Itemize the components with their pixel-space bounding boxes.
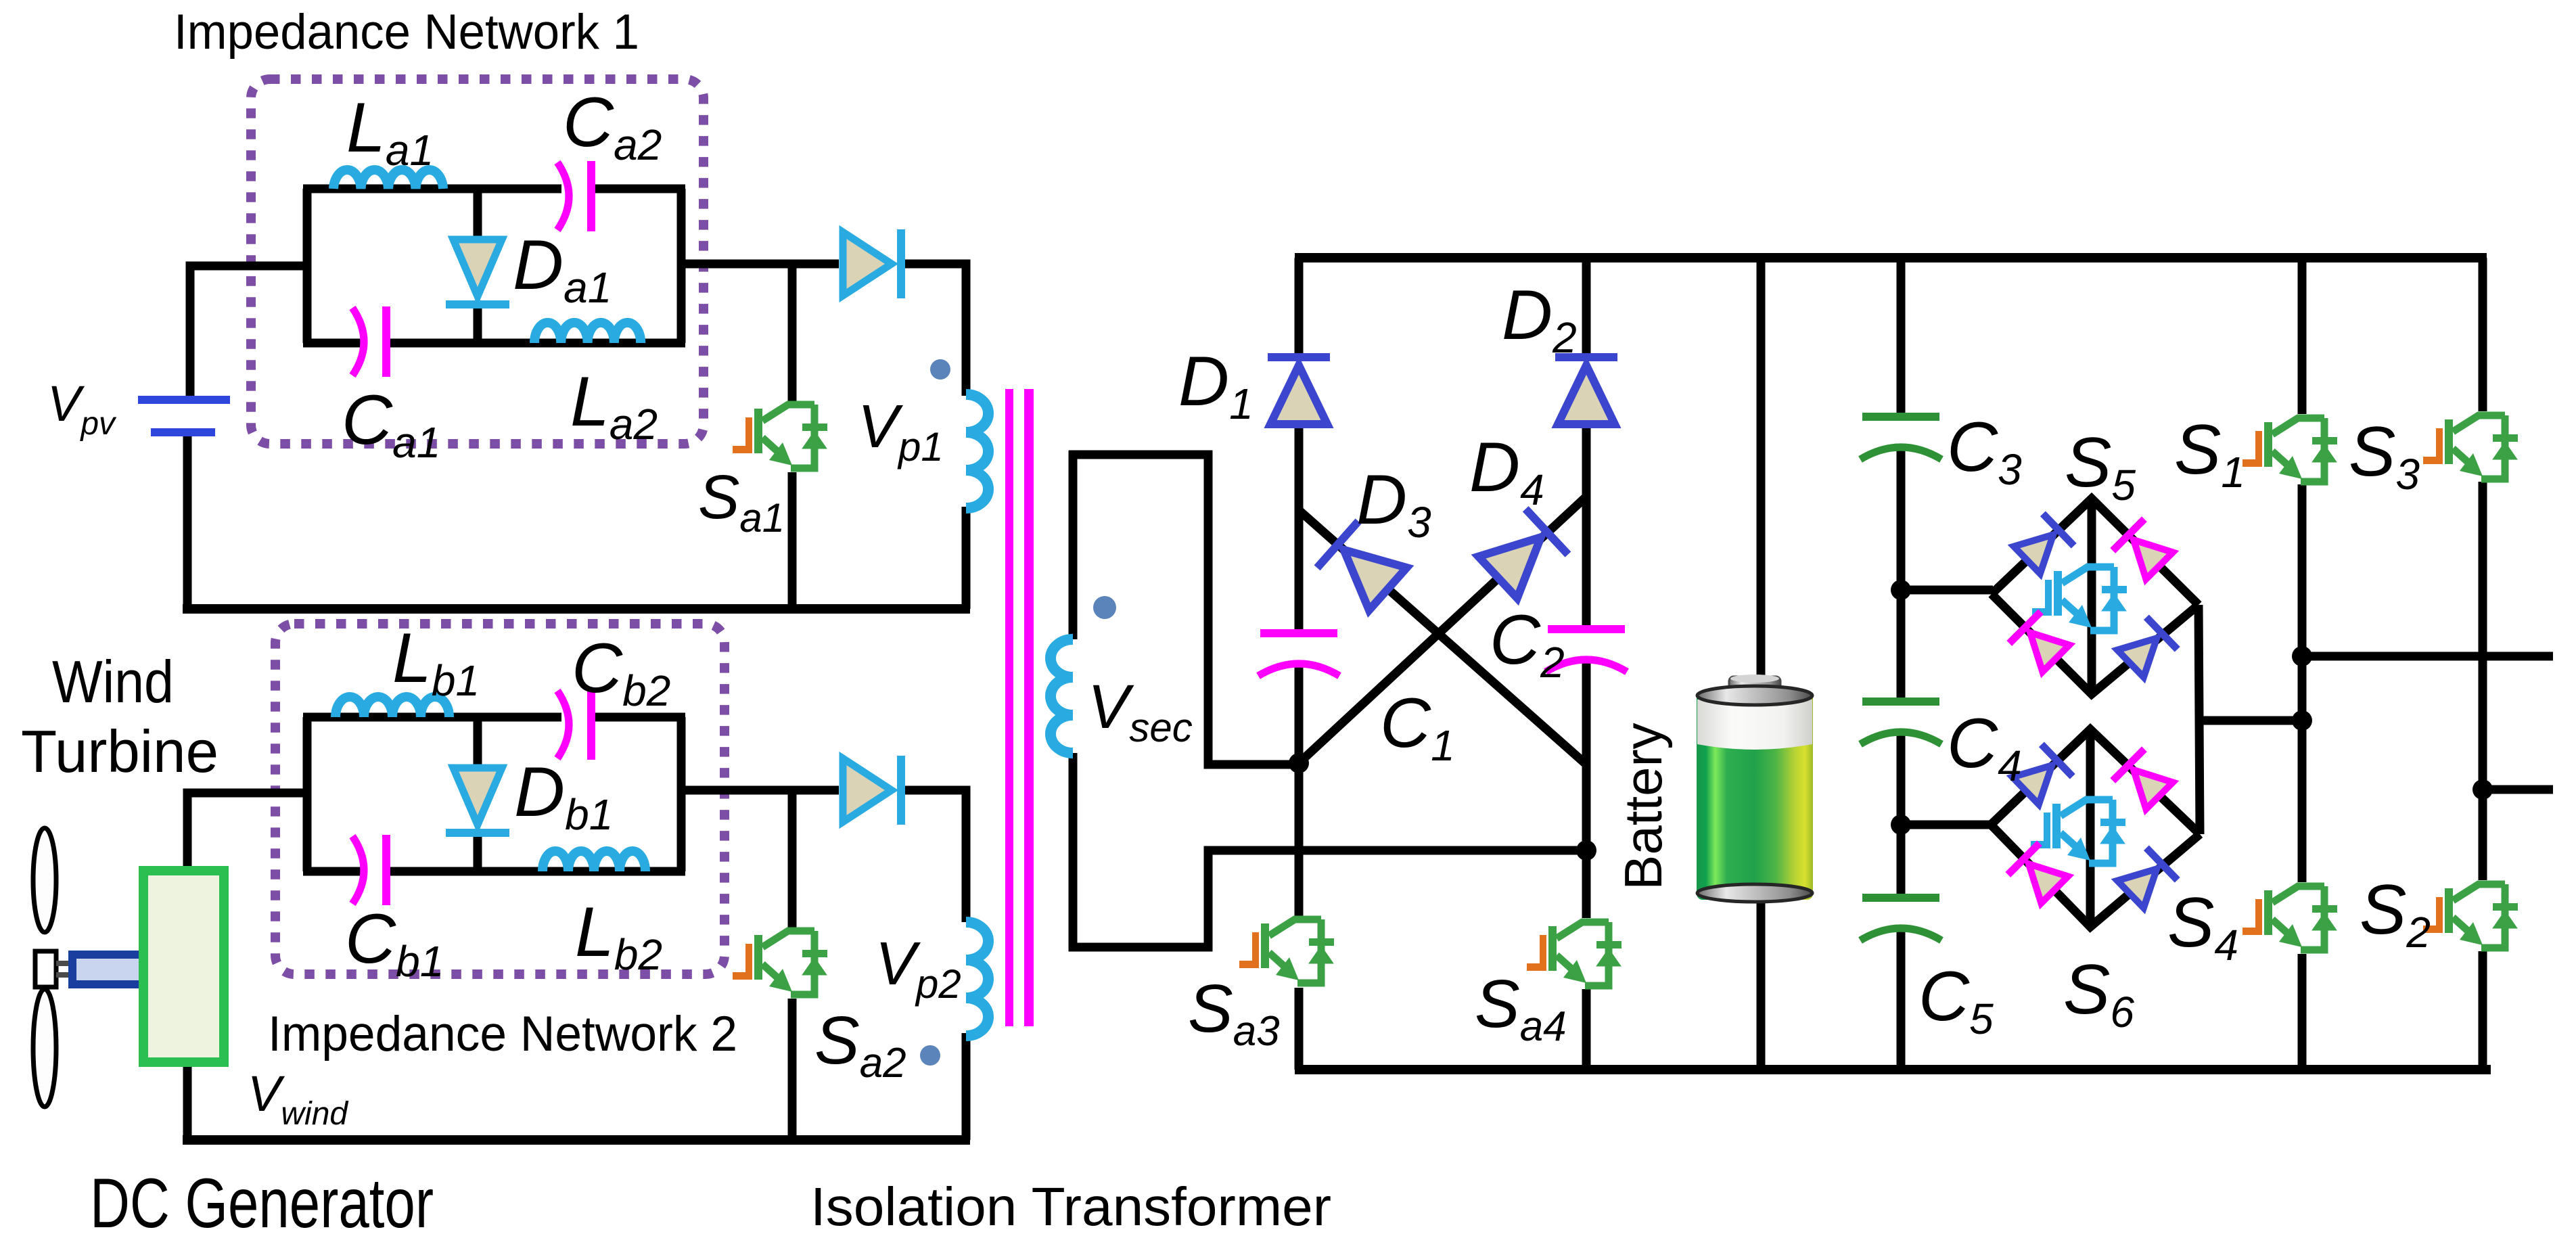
battery top rim — [1697, 686, 1812, 705]
capacitor C5 — [1860, 894, 1941, 940]
svg-text:C5: C5 — [1918, 957, 1994, 1043]
diode S5 bottom-right — [2115, 614, 2180, 679]
capacitor Cb1 — [352, 835, 390, 905]
wire S1 S4 lane — [2298, 258, 2307, 1070]
switch Sa3 — [1239, 919, 1334, 983]
wire diagonal D3 — [1299, 510, 1586, 764]
winding Vp1 — [966, 394, 988, 508]
switch Sa2 — [733, 931, 827, 995]
svg-text:S5: S5 — [2065, 424, 2136, 509]
svg-text:Cb1: Cb1 — [345, 900, 444, 986]
wire S6 bridge diamond — [1991, 729, 2200, 927]
svg-text:Sa3: Sa3 — [1188, 971, 1280, 1055]
battery terminal nub — [1729, 677, 1780, 694]
capacitor C2 — [1546, 625, 1627, 672]
switch S2 — [2423, 884, 2518, 948]
svg-text:C3: C3 — [1947, 408, 2022, 494]
wind turbine blade lower — [33, 989, 56, 1107]
svg-text:Vp1: Vp1 — [858, 393, 944, 470]
wire network2 top branch — [303, 713, 685, 722]
diode S5 bottom-left — [2006, 609, 2071, 674]
wire C3 junction to S5 bridge — [1901, 586, 1993, 595]
node junction bridge tap — [2292, 710, 2312, 731]
svg-text:D3: D3 — [1356, 461, 1431, 547]
svg-text:Cb2: Cb2 — [572, 629, 670, 715]
battery top white section — [1697, 700, 1812, 750]
wire network1 inner rect right — [677, 189, 686, 343]
wire S3 S2 lane — [2479, 258, 2487, 1070]
wind turbine hub — [35, 951, 56, 987]
wire AC output lower — [2483, 785, 2553, 794]
svg-text:Ca2: Ca2 — [563, 83, 662, 169]
svg-text:D4: D4 — [1469, 428, 1544, 514]
diode D4 — [1477, 506, 1571, 600]
inductor La2 — [534, 323, 641, 343]
impedance network 1 dashed box — [251, 79, 704, 444]
wire Vsec bottom lead — [1073, 753, 1586, 947]
wire D2 C2 Sa4 lane — [1582, 258, 1591, 1070]
winding Vp2 — [966, 922, 988, 1036]
diode Da1 — [446, 239, 509, 308]
svg-text:D1: D1 — [1178, 342, 1253, 428]
svg-text:Sa2: Sa2 — [814, 1003, 906, 1087]
switch S4 — [2242, 886, 2337, 950]
DC generator box — [143, 871, 224, 1062]
svg-text:S6: S6 — [2063, 951, 2134, 1036]
svg-text:Lb2: Lb2 — [575, 893, 662, 979]
svg-text:Turbine: Turbine — [21, 718, 218, 785]
wire network1 inner rect left — [303, 189, 312, 343]
wire D1 C1 Sa3 lane — [1295, 258, 1304, 1070]
wire network1 top branch — [303, 185, 685, 193]
svg-text:Wind: Wind — [52, 648, 174, 715]
switch S3 — [2423, 415, 2518, 479]
svg-text:La2: La2 — [570, 363, 658, 449]
svg-text:Vsec: Vsec — [1088, 672, 1193, 750]
node junction S1 output — [2292, 646, 2312, 666]
wire network2 bottom branch — [303, 867, 685, 876]
winding Vsec — [1051, 639, 1073, 753]
wire Vp2 bottom lead — [962, 1033, 971, 1140]
diode S5 top-left — [2011, 511, 2076, 576]
svg-text:S2: S2 — [2360, 871, 2431, 957]
svg-text:C1: C1 — [1380, 684, 1455, 770]
svg-text:Impedance Network 2: Impedance Network 2 — [268, 1007, 737, 1061]
svg-text:Vwind: Vwind — [248, 1066, 348, 1132]
wire bottom DC bus — [1295, 1065, 2491, 1074]
source Vpv plate bottom — [151, 428, 215, 436]
svg-text:C4: C4 — [1947, 704, 2022, 790]
diode series primary2 — [843, 756, 905, 825]
capacitor C1 — [1258, 629, 1339, 676]
wire C4 junction to S6 bridge — [1901, 821, 1992, 829]
wire generator bottom lead — [183, 1062, 192, 1140]
wire Sa1 branch — [788, 264, 797, 609]
svg-text:S1: S1 — [2174, 411, 2245, 497]
wire Db1 vertical branch — [474, 717, 482, 871]
wire bridge tap to S1 lane — [2200, 716, 2302, 725]
svg-text:Sa1: Sa1 — [698, 463, 785, 541]
wire Vsec top lead — [1069, 451, 1295, 764]
wind turbine shaft stub — [56, 963, 73, 975]
wind turbine drive shaft — [72, 955, 151, 984]
capacitor Cb2 — [557, 689, 595, 760]
wire Vpv top lead — [190, 266, 303, 396]
source Vpv plate top — [138, 396, 230, 404]
svg-text:Da1: Da1 — [513, 226, 612, 312]
inductor Lb1 — [336, 697, 449, 717]
svg-text:Vp2: Vp2 — [875, 930, 961, 1007]
node junction C3 C4 — [1891, 580, 1911, 600]
impedance network 2 dashed box — [275, 624, 724, 974]
svg-text:Lb1: Lb1 — [392, 619, 480, 705]
battery bottom rim — [1697, 884, 1812, 902]
inductor Lb2 — [543, 851, 645, 871]
svg-text:Impedance Network 1: Impedance Network 1 — [174, 5, 639, 60]
polarity dot primary1 — [930, 359, 950, 380]
wire network1 bottom branch — [303, 339, 685, 348]
wire AC output upper — [2302, 652, 2553, 661]
node junction Vsec bottom to C2 lane — [1576, 840, 1596, 861]
diode S5 top-right — [2110, 516, 2175, 581]
svg-text:D2: D2 — [1502, 276, 1577, 362]
polarity dot primary2 — [920, 1045, 940, 1066]
wind turbine blade upper — [33, 828, 56, 932]
diode S6 top-right — [2110, 746, 2175, 811]
polarity dot secondary — [1093, 596, 1116, 619]
svg-text:Db1: Db1 — [514, 753, 613, 839]
diode S6 top-left — [2010, 741, 2075, 806]
battery body — [1697, 691, 1813, 900]
svg-text:Sa4: Sa4 — [1475, 966, 1567, 1050]
switch S5 IGBT — [2032, 567, 2127, 631]
wire bottom rail of PV loop — [183, 604, 970, 614]
wire Da1 vertical branch — [474, 189, 482, 343]
capacitor C4 — [1860, 698, 1941, 744]
wire S6 collector-emitter chord — [2086, 729, 2095, 927]
svg-text:Isolation Transformer: Isolation Transformer — [810, 1176, 1331, 1237]
wire S5 bridge diamond — [1992, 499, 2199, 694]
node junction C4 C5 — [1891, 815, 1911, 835]
capacitor Ca2 — [557, 161, 595, 231]
diode S6 bottom-left — [2005, 840, 2070, 905]
svg-text:DC Generator: DC Generator — [90, 1164, 434, 1243]
wire diagonal D4 — [1299, 497, 1586, 763]
diode Db1 — [446, 768, 509, 837]
wire capacitor chain lane — [1897, 258, 1906, 1070]
wire Vpv bottom lead — [183, 436, 192, 609]
svg-text:Battery: Battery — [1613, 723, 1673, 890]
diode D1 — [1268, 353, 1330, 424]
wire network1 output to primary1 top — [681, 264, 966, 396]
wire S5 collector-emitter chord — [2088, 499, 2096, 694]
wire generator top lead — [187, 793, 307, 870]
switch S6 IGBT — [2031, 800, 2125, 863]
transformer core line right — [1024, 389, 1034, 1026]
battery nub top face — [1730, 675, 1779, 683]
svg-text:La1: La1 — [346, 89, 434, 175]
svg-text:S3: S3 — [2349, 413, 2420, 499]
node junction S2 output — [2472, 779, 2493, 800]
svg-text:Ca1: Ca1 — [342, 381, 440, 467]
node junction Vsec top to C1 — [1289, 753, 1309, 773]
transformer core line left — [1005, 389, 1013, 1026]
diode D3 — [1314, 518, 1409, 612]
capacitor Ca1 — [352, 306, 390, 377]
wire network2 output to primary2 top — [681, 790, 966, 922]
wire Vp1 bottom lead — [962, 507, 971, 609]
wire network2 inner rect left — [303, 717, 312, 871]
wire bottom rail of wind loop — [183, 1135, 970, 1145]
wire Sa2 branch — [788, 790, 797, 1140]
switch S1 — [2242, 418, 2337, 482]
switch Sa1 — [733, 405, 827, 468]
inductor La1 — [333, 170, 443, 189]
wire top DC bus — [1295, 253, 2487, 262]
diode series primary1 — [843, 229, 905, 298]
wire bridge right vertical — [2199, 605, 2200, 834]
wire battery lane — [1757, 258, 1766, 1070]
wire network2 inner rect right — [677, 717, 686, 871]
switch Sa4 — [1527, 922, 1621, 986]
svg-text:Vpv: Vpv — [47, 375, 117, 442]
diode D2 — [1555, 353, 1617, 424]
svg-text:S4: S4 — [2167, 884, 2238, 969]
diode S6 bottom-right — [2115, 845, 2180, 910]
capacitor C3 — [1860, 413, 1941, 459]
svg-text:C2: C2 — [1490, 601, 1565, 687]
